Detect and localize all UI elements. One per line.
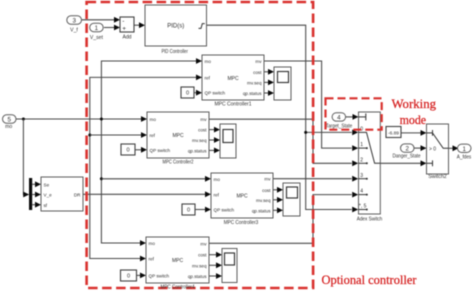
svg-text:MPC: MPC bbox=[172, 258, 184, 264]
svg-text:qp.status: qp.status bbox=[252, 208, 271, 213]
wire MPC2 cost to Scope2 bbox=[209, 127, 220, 133]
wire MPC3 mv.seq to Scope3 bbox=[273, 197, 283, 203]
sum block Add bbox=[120, 17, 134, 41]
wire Constant0_2 to MPC2 QP switch bbox=[135, 147, 147, 153]
svg-text:cost: cost bbox=[253, 70, 262, 75]
svg-text:qp.status: qp.status bbox=[243, 91, 262, 96]
wire Constant0_4 to MPC4 QP switch bbox=[137, 273, 147, 279]
svg-text:mo: mo bbox=[149, 241, 156, 246]
svg-text:V_set: V_set bbox=[90, 35, 104, 41]
wire DR output to MPC3 ref input bbox=[83, 191, 211, 197]
constant 0 for MPC2 bbox=[121, 144, 135, 155]
svg-text:5: 5 bbox=[7, 117, 11, 124]
block MPC Controller4 bbox=[146, 237, 209, 283]
svg-text:mv.seq: mv.seq bbox=[192, 263, 207, 268]
inport 1 V_set bbox=[90, 23, 104, 41]
svg-text:ref: ref bbox=[214, 192, 220, 197]
wire Constant0_3 to MPC3 QP switch bbox=[195, 207, 211, 213]
svg-text:MPC Controller3: MPC Controller3 bbox=[224, 220, 259, 226]
svg-text:2: 2 bbox=[360, 157, 363, 163]
svg-text:ref: ref bbox=[149, 257, 155, 262]
junction node PID trunk input0 bbox=[304, 131, 307, 134]
wire MPC4 mv.seq to Scope4 bbox=[209, 262, 222, 268]
svg-text:0: 0 bbox=[187, 208, 190, 214]
svg-text:mv.seq: mv.seq bbox=[247, 80, 262, 85]
junction node mo trunk at port5 wire bbox=[100, 118, 103, 121]
svg-text:mo: mo bbox=[5, 124, 12, 130]
scope Scope2 bbox=[220, 124, 236, 158]
wire MPC4 mv to Index Switch input4 bbox=[209, 192, 358, 244]
svg-text:4: 4 bbox=[337, 115, 341, 122]
wire Target_State port4 to Index Switch control bbox=[345, 114, 358, 120]
svg-text:mv: mv bbox=[264, 177, 271, 182]
svg-text:1: 1 bbox=[462, 146, 466, 153]
svg-text:qp.status: qp.status bbox=[188, 274, 207, 279]
svg-text:Se: Se bbox=[44, 182, 50, 187]
wire Demux out2 to DR V_e bbox=[32, 192, 41, 198]
inport 4 Target_State bbox=[326, 113, 353, 130]
svg-text:2: 2 bbox=[405, 146, 409, 153]
block MPC Controller2 bbox=[147, 112, 209, 166]
constant 0 for MPC4 bbox=[121, 270, 137, 281]
svg-text:ref: ref bbox=[205, 75, 211, 80]
svg-text:PID(s): PID(s) bbox=[167, 23, 184, 29]
annotation box Optional controller bbox=[87, 2, 314, 288]
wire Demux out1 to DR Se bbox=[32, 181, 41, 187]
wire V_f port3 to Add minus input bbox=[81, 17, 120, 23]
wire MPC1 mv to Index Switch input1 bbox=[264, 61, 358, 151]
svg-text:ref: ref bbox=[150, 133, 156, 138]
wire MPC2 mv to Index Switch input2 bbox=[209, 119, 358, 166]
wire branch PID trunk to Index Switch input0 bbox=[306, 130, 359, 136]
constant -6.89 bbox=[386, 127, 401, 138]
svg-text:mo: mo bbox=[150, 117, 157, 122]
scope Scope3 bbox=[283, 183, 300, 216]
junction node mo port branch bbox=[22, 118, 25, 121]
svg-text:V_e: V_e bbox=[44, 193, 53, 198]
wire MPC3 cost to Scope3 bbox=[273, 187, 283, 193]
demux bbox=[29, 178, 32, 210]
svg-text:QP switch: QP switch bbox=[149, 273, 170, 278]
wire mo branch down to Demux input bbox=[23, 119, 29, 197]
constant 0 for MPC3 bbox=[182, 204, 195, 215]
block MPC Controller3 bbox=[211, 173, 273, 226]
svg-text:3: 3 bbox=[360, 173, 363, 179]
inport 3 V_f bbox=[67, 16, 82, 34]
wire Add output to PID input bbox=[134, 22, 145, 28]
wire MPC4 cost to Scope4 bbox=[209, 252, 222, 258]
wire ref distribution vertical trunk to MPC1 ref and MPC4 ref bbox=[90, 75, 202, 262]
inport 5 mo bbox=[3, 115, 17, 130]
svg-text:1: 1 bbox=[360, 142, 363, 148]
svg-text:mo: mo bbox=[205, 59, 212, 64]
svg-text:0: 0 bbox=[126, 148, 129, 154]
annotation text Working mode bbox=[392, 97, 437, 127]
junction node ref trunk at MPC2 ref wire bbox=[88, 134, 91, 137]
wire PID output to Index Switch input0 and default input, vertical trunk bbox=[207, 25, 359, 212]
wire MPC3 mv to Index Switch input3 bbox=[273, 176, 358, 182]
svg-text:0: 0 bbox=[127, 274, 130, 280]
svg-text:qp.status: qp.status bbox=[188, 148, 207, 153]
wire MPC4 qp.status to Scope4 bbox=[209, 273, 222, 279]
svg-text:-: - bbox=[122, 18, 124, 25]
wire Demux out3 to DR sf bbox=[32, 202, 41, 208]
svg-text:MPC: MPC bbox=[236, 194, 248, 200]
wire MPC3 qp.status to Scope3 bbox=[273, 207, 283, 213]
wire MPC1 mv.seq to Scope1 bbox=[264, 80, 274, 86]
wire V_set port1 to Add plus input bbox=[104, 25, 120, 31]
multiport switch Adex Switch bbox=[357, 112, 383, 223]
svg-text:V_f: V_f bbox=[70, 28, 78, 34]
wire MPC2 mv.seq to Scope2 bbox=[209, 137, 220, 143]
svg-text:mode: mode bbox=[400, 113, 427, 127]
wire mo trunk to MPC3 mo input bbox=[101, 176, 211, 182]
svg-text:Working: Working bbox=[392, 97, 437, 111]
block PID Controller bbox=[145, 5, 207, 55]
block MPC Controller1 bbox=[202, 55, 264, 108]
svg-text:0: 0 bbox=[186, 91, 189, 97]
svg-text:QP switch: QP switch bbox=[205, 91, 226, 96]
svg-text:3: 3 bbox=[72, 18, 76, 25]
wire Danger_State port2 to Switch2 control bbox=[414, 145, 427, 151]
constant 0 for MPC1 bbox=[181, 87, 194, 98]
svg-text:MPC: MPC bbox=[172, 133, 184, 139]
wire Index Switch output to Switch2 input3 bbox=[380, 160, 426, 166]
scope Scope1 bbox=[274, 67, 291, 100]
wire mo distribution vertical trunk to MPC1 mo bbox=[101, 58, 202, 246]
svg-text:mv: mv bbox=[200, 241, 207, 246]
svg-text:A_fdes: A_fdes bbox=[457, 155, 472, 161]
svg-text:+: + bbox=[122, 26, 126, 33]
svg-text:Switch2: Switch2 bbox=[428, 174, 447, 180]
svg-text:PID Controller: PID Controller bbox=[161, 49, 188, 55]
svg-text:Adex Switch: Adex Switch bbox=[357, 217, 383, 223]
svg-text:mv.seq: mv.seq bbox=[192, 138, 207, 143]
svg-text:cost: cost bbox=[198, 128, 207, 133]
wire Constant0_1 to MPC1 QP switch bbox=[194, 90, 202, 96]
wire MPC1 cost to Scope1 bbox=[264, 69, 274, 75]
svg-text:Danger_State: Danger_State bbox=[393, 153, 421, 159]
wire Constant -6.89 to Switch2 input1 bbox=[401, 130, 427, 136]
svg-text:mv: mv bbox=[255, 59, 262, 64]
svg-text:mo: mo bbox=[214, 177, 221, 182]
scope Scope4 bbox=[222, 249, 237, 283]
svg-text:cost: cost bbox=[198, 253, 207, 258]
wire ref trunk to MPC2 ref input bbox=[90, 132, 147, 138]
svg-text:MPC: MPC bbox=[227, 76, 239, 82]
annotation box Working mode bbox=[326, 98, 382, 129]
outport 1 A_fdes bbox=[457, 144, 472, 160]
svg-text:QP switch: QP switch bbox=[214, 208, 235, 213]
svg-text:cost: cost bbox=[262, 188, 271, 193]
svg-text:Add: Add bbox=[122, 35, 131, 41]
wire Switch2 output to A_fdes port bbox=[449, 145, 459, 151]
svg-text:DR: DR bbox=[74, 193, 81, 198]
wire MPC2 qp.status to Scope2 bbox=[209, 148, 220, 154]
svg-text:mv: mv bbox=[200, 117, 207, 122]
svg-text:*, 5: *, 5 bbox=[359, 204, 367, 210]
svg-text:Optional controller: Optional controller bbox=[322, 273, 418, 287]
junction node mo trunk at MPC3 mo wire bbox=[100, 177, 103, 180]
wire mo port5 to MPC2 mo input bbox=[16, 116, 147, 122]
svg-text:mv.seq: mv.seq bbox=[256, 198, 271, 203]
svg-text:MPC Controller1: MPC Controller1 bbox=[215, 102, 252, 108]
svg-text:> 0: > 0 bbox=[429, 146, 436, 152]
svg-text:MPC Controller2: MPC Controller2 bbox=[163, 160, 194, 166]
svg-text:-6.89: -6.89 bbox=[388, 130, 399, 136]
svg-text:4: 4 bbox=[360, 189, 363, 195]
svg-text:MPC Controller4: MPC Controller4 bbox=[161, 284, 195, 290]
inport 2 Danger_State bbox=[393, 144, 421, 160]
switch block Switch2 bbox=[427, 124, 449, 180]
svg-text:QP switch: QP switch bbox=[150, 148, 171, 153]
block DR estimator bbox=[41, 177, 83, 211]
svg-text:1: 1 bbox=[95, 25, 99, 32]
wire MPC1 qp.status to Scope1 bbox=[264, 90, 274, 96]
